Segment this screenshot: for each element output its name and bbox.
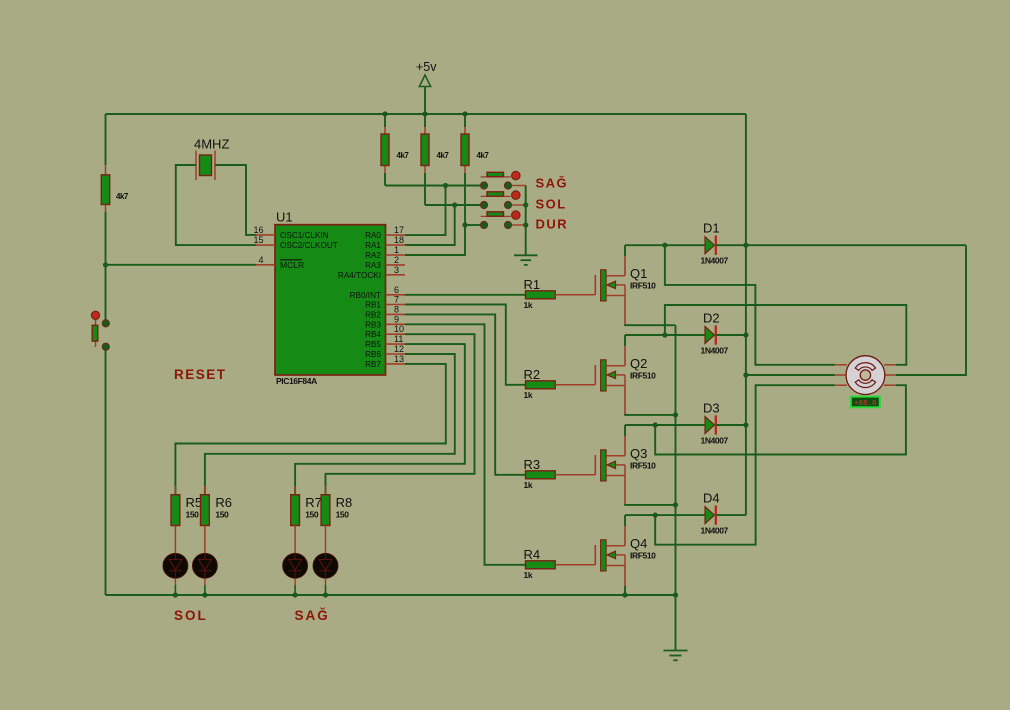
svg-text:U1: U1 (276, 210, 293, 225)
pin 7 RB1 stub (386, 304, 406, 306)
wire R2 to Q2 gate (555, 384, 595, 386)
wire SOL row horizontal (425, 204, 480, 206)
svg-text:RB7: RB7 (365, 360, 381, 369)
resistor R6 top lead (204, 486, 206, 495)
wire R3 to Q3 gate (555, 474, 595, 476)
node junction Q2 source / ground bus (673, 412, 678, 417)
wire D3 anode line (625, 424, 705, 426)
transistor Q1 channel plate (601, 270, 607, 301)
button SOL actuator (512, 191, 520, 199)
resistor R 4k7 left top lead (105, 165, 107, 175)
wire MCLR net horizontal (106, 264, 257, 266)
svg-text:IRF510: IRF510 (630, 281, 656, 291)
svg-text:4k7: 4k7 (116, 192, 129, 201)
svg-text:OSC1/CLKIN: OSC1/CLKIN (280, 231, 329, 240)
ground symbol main (664, 650, 688, 652)
pin 18 RA1 stub (386, 244, 406, 246)
svg-text:RB6: RB6 (365, 350, 381, 359)
svg-text:R2: R2 (524, 367, 541, 382)
button RESET bottom terminal (102, 343, 109, 350)
svg-text:11: 11 (394, 334, 403, 344)
wire motor right common to D1 cathode net (896, 245, 966, 375)
svg-text:1: 1 (394, 245, 399, 255)
svg-text:1k: 1k (524, 300, 533, 310)
wire Q1 source to ground bus (624, 296, 626, 326)
resistor pull-up 4k7 #3 top lead (464, 114, 466, 127)
diode D2 triangle (705, 327, 715, 344)
ground symbol buttons (514, 254, 538, 256)
wire D2 cathode to +5V vertical (716, 334, 746, 336)
svg-text:RA1: RA1 (365, 241, 381, 250)
resistor R3 body (526, 471, 556, 479)
wire RA0 pin17 to SAG row (405, 186, 446, 236)
svg-text:IRF510: IRF510 (630, 551, 656, 561)
node junction SOL common (523, 202, 528, 207)
svg-text:1k: 1k (524, 390, 533, 400)
resistor R8 top lead (325, 486, 327, 495)
svg-text:PIC16F84A: PIC16F84A (276, 376, 317, 386)
diode D1 cathode bar (715, 236, 717, 255)
button DUR actuator (512, 211, 520, 219)
svg-text:1N4007: 1N4007 (701, 256, 729, 266)
wire button DUR right stub (512, 224, 526, 226)
svg-text:Q4: Q4 (630, 536, 647, 551)
svg-text:R3: R3 (524, 457, 541, 472)
svg-text:D2: D2 (703, 311, 720, 326)
svg-text:150: 150 (186, 510, 200, 520)
node junction top rail / R pull-up 2 (422, 111, 427, 116)
resistor R5 bottom lead (174, 526, 176, 554)
diode D3 cathode bar (715, 415, 717, 434)
wire ground stem (675, 595, 677, 651)
LED D-led3 symbol (289, 560, 302, 571)
LED D-led1 symbol (169, 560, 182, 571)
button SOL cap (487, 192, 504, 196)
wire R1 to Q1 gate (555, 294, 595, 296)
wire buttons common vertical to ground (525, 186, 527, 256)
wire LED1 to bottom rail (174, 578, 176, 585)
pin 16 OSC1/CLKIN stub (256, 234, 275, 236)
wire D1 cathode to +5V and motor common (716, 244, 966, 246)
resistor R 4k7 left body (101, 175, 109, 205)
transistor Q2 gate line (594, 365, 596, 385)
button SAG right terminal (504, 182, 511, 189)
crystal left plate (195, 151, 197, 181)
resistor R2 body (526, 381, 556, 389)
wire bottom rail (106, 594, 676, 596)
resistor R 4k7 left bottom lead (105, 205, 107, 213)
svg-text:OSC2/CLKOUT: OSC2/CLKOUT (280, 241, 338, 250)
wire button SAG right stub (512, 185, 526, 187)
wire LED4 to bottom rail (325, 578, 327, 585)
svg-text:RB5: RB5 (365, 340, 381, 349)
svg-text:10: 10 (394, 324, 404, 334)
pin 15 OSC2/CLKOUT stub (256, 244, 275, 246)
svg-text:4MHZ: 4MHZ (194, 137, 229, 152)
node junction top rail / R pull-up 3 (462, 111, 467, 116)
transistor Q3 drain stub (606, 455, 625, 457)
svg-text:6: 6 (394, 285, 399, 295)
svg-text:SOL: SOL (174, 608, 208, 623)
power +5v arrow symbol (419, 75, 430, 87)
diode D3 triangle (705, 417, 715, 434)
node junction LED2 / bottom rail (202, 592, 207, 597)
node junction D3 anode tap (653, 422, 658, 427)
svg-text:8: 8 (394, 304, 399, 314)
transistor Q2 drain stub (606, 365, 625, 367)
node junction LED4 / bottom rail (323, 592, 328, 597)
wire RB2 pin8 to R3 (405, 314, 526, 474)
svg-text:RESET: RESET (174, 367, 227, 382)
wire winding1 Q1 drain to motor UL (665, 245, 835, 365)
svg-text:SOL: SOL (536, 197, 567, 212)
resistor pull-up 4k7 #1 body (381, 134, 389, 166)
node junction D3 cathode / +5V vertical (743, 422, 748, 427)
svg-text:13: 13 (394, 354, 404, 364)
resistor R1 body (526, 291, 556, 299)
crystal right plate (214, 151, 216, 181)
wire +5V top rail (106, 113, 746, 115)
resistor pull-up 4k7 #2 bottom lead (424, 166, 426, 174)
pin 4 MCLR stub (256, 264, 275, 266)
LED D-led2 symbol (199, 560, 212, 571)
resistor R6 bottom lead (204, 526, 206, 554)
wire R4 to Q4 gate (555, 564, 595, 566)
resistor pull-up 4k7 #1 bottom lead (384, 166, 386, 174)
wire D4 anode line (625, 514, 705, 516)
resistor R7 top lead (294, 486, 296, 495)
resistor R6 body (201, 495, 210, 526)
wire motor left common to +5V vertical (746, 374, 835, 376)
svg-text:7: 7 (394, 295, 399, 305)
svg-text:SAĞ: SAĞ (536, 176, 569, 191)
button DUR right terminal (504, 221, 511, 228)
node junction DUR/RA2 (462, 222, 467, 227)
resistor R8 body (321, 495, 330, 526)
svg-text:IRF510: IRF510 (630, 371, 656, 381)
svg-text:+5v: +5v (416, 60, 437, 74)
resistor R5 body (171, 495, 180, 526)
svg-text:12: 12 (394, 344, 404, 354)
transistor Q3 source stub (606, 475, 625, 477)
wire Q3 drain to D3 line (624, 436, 626, 456)
node junction D4 anode tap (653, 513, 658, 518)
svg-text:Q3: Q3 (630, 446, 647, 461)
wire RB4 pin10 to R8 (326, 334, 475, 495)
svg-text:1N4007: 1N4007 (701, 526, 729, 536)
svg-text:D3: D3 (703, 401, 720, 416)
wire reset button to bottom rail (105, 350, 107, 595)
svg-text:4k7: 4k7 (397, 151, 410, 160)
svg-text:RA2: RA2 (365, 251, 381, 260)
pin 6 RB0/INT stub (386, 294, 406, 296)
button SAG actuator (512, 171, 520, 179)
svg-text:SAĞ: SAĞ (295, 608, 330, 623)
svg-text:Q1: Q1 (630, 266, 647, 281)
svg-text:9: 9 (394, 314, 399, 324)
transistor Q2 source stub (606, 385, 625, 387)
wire Q3 source to ground bus (624, 476, 626, 505)
node junction SAG/RA0 (443, 183, 448, 188)
transistor Q4 body arrow (607, 551, 616, 558)
motor M1 shaft circle (860, 370, 870, 380)
svg-text:15: 15 (253, 235, 263, 245)
pin 12 RB6 stub (386, 353, 406, 355)
svg-text:D1: D1 (703, 221, 720, 236)
wire Q1 drain to D1 line (624, 256, 626, 276)
svg-text:150: 150 (215, 510, 229, 520)
svg-text:1N4007: 1N4007 (701, 346, 729, 356)
button DUR left terminal (480, 221, 487, 228)
wire DUR row horizontal (465, 224, 480, 226)
node junction LED3 / bottom rail (293, 592, 298, 597)
pin 17 RA0 stub (386, 234, 406, 236)
wire Q4 drain to D4 line (624, 526, 626, 546)
button RESET actuator (91, 311, 99, 319)
wire RB3 pin9 to R4 (405, 324, 526, 565)
wire SAG row horizontal (385, 185, 480, 187)
pin 13 RB7 stub (386, 363, 406, 365)
wire D3 cathode to +5V vertical (716, 424, 746, 426)
transistor Q1 drain stub (606, 275, 625, 277)
wire LED3 to bottom rail (294, 578, 296, 585)
svg-text:4: 4 (258, 255, 263, 265)
node junction D1 cathode / +5V vertical (743, 243, 748, 248)
transistor Q3 gate line (594, 455, 596, 475)
button RESET cap (92, 325, 98, 341)
svg-text:R7: R7 (305, 495, 322, 510)
chip U1 PIC16F84A body (275, 225, 386, 375)
node junction D2 anode tap (662, 332, 667, 337)
wire RB5 pin11 to R7 (295, 344, 465, 495)
button DUR cap (487, 212, 504, 216)
wire ground bus vertical (675, 325, 677, 595)
diode D2 cathode bar (715, 325, 717, 344)
button SAG cap (487, 172, 504, 176)
LED D-led4 symbol (319, 560, 332, 571)
node junction D1 anode tap (662, 243, 667, 248)
LED D-led2 body (193, 553, 218, 578)
motor M1 upper brush arc (855, 363, 875, 371)
diode D1 triangle (705, 237, 715, 254)
svg-text:RB1: RB1 (365, 301, 381, 310)
LED D-led3 body (283, 553, 308, 578)
wire winding3 Q3 drain to motor LR (655, 385, 906, 454)
wire crystal left to OSC2 (176, 165, 256, 245)
button SAG left terminal (480, 182, 487, 189)
transistor Q2 channel plate (601, 360, 607, 391)
wire RA2 pin1 to DUR row (405, 225, 465, 255)
transistor Q3 channel plate (601, 450, 607, 481)
resistor pull-up 4k7 #2 top lead (424, 114, 426, 127)
svg-text:RB2: RB2 (365, 310, 381, 319)
LED D-led1 body (163, 553, 188, 578)
pin 3 RA4/TOCKI stub (386, 274, 406, 276)
node junction Q3 source / ground bus (673, 502, 678, 507)
svg-text:1k: 1k (524, 480, 533, 490)
svg-text:R4: R4 (524, 547, 541, 562)
transistor Q1 body arrow (607, 281, 616, 288)
resistor pull-up 4k7 #1 top lead (384, 114, 386, 127)
resistor pull-up 4k7 #3 body (461, 134, 469, 166)
transistor Q3 body arrow (607, 461, 616, 468)
node junction motor common / +5V vertical (743, 372, 748, 377)
svg-text:17: 17 (394, 225, 404, 235)
wire Q2 drain to D2 line (624, 346, 626, 366)
pin 1 RA2 stub (386, 254, 406, 256)
button RESET top terminal (102, 320, 109, 327)
svg-text:1k: 1k (524, 570, 533, 580)
svg-text:DUR: DUR (536, 217, 569, 232)
svg-text:+88.8: +88.8 (854, 400, 877, 408)
wire left vertical upper (top rail to R 4k7) (105, 114, 107, 165)
node junction MCLR net (103, 262, 108, 267)
svg-text:MCLR: MCLR (280, 260, 304, 270)
svg-text:18: 18 (394, 235, 404, 245)
wire +5V vertical right (745, 114, 747, 515)
resistor R5 top lead (174, 486, 176, 495)
wire RB1 pin7 to R2 (405, 305, 526, 385)
svg-text:RA0: RA0 (365, 231, 381, 240)
svg-text:RB3: RB3 (365, 320, 381, 329)
svg-text:R5: R5 (186, 495, 203, 510)
resistor R4 body (526, 561, 556, 569)
svg-text:1N4007: 1N4007 (701, 436, 729, 446)
transistor Q1 gate line (594, 275, 596, 295)
resistor R8 bottom lead (325, 526, 327, 554)
transistor Q4 channel plate (601, 540, 607, 571)
wire Q4 source to bottom rail (624, 566, 626, 587)
wire RB7 pin13 to R5 (175, 364, 445, 495)
diode D4 cathode bar (715, 505, 717, 524)
wire LED2 to bottom rail (204, 578, 206, 585)
svg-text:D4: D4 (703, 491, 720, 506)
wire winding2 Q2 drain to motor UR (665, 305, 906, 365)
svg-text:R6: R6 (215, 495, 232, 510)
pin 9 RB3 stub (386, 323, 406, 325)
svg-text:150: 150 (336, 510, 350, 520)
wire Q2 source to ground bus (624, 386, 626, 415)
motor M1 rpm display (851, 397, 880, 408)
resistor R7 bottom lead (294, 526, 296, 554)
wire MCLR vertical to reset button (105, 265, 107, 320)
wire D2 anode line (625, 334, 705, 336)
transistor Q4 drain stub (606, 545, 625, 547)
svg-text:3: 3 (394, 265, 399, 275)
resistor pull-up 4k7 #2 body (421, 134, 429, 166)
motor M1 pin stubs (835, 364, 847, 366)
svg-text:4k7: 4k7 (437, 151, 450, 160)
wire crystal right to OSC1 (215, 165, 256, 235)
button SOL right terminal (504, 201, 511, 208)
svg-text:150: 150 (305, 510, 319, 520)
node junction top rail / R pull-up 1 (382, 111, 387, 116)
svg-text:Q2: Q2 (630, 356, 647, 371)
button DUR cap link (481, 215, 511, 217)
transistor Q1 source stub (606, 295, 625, 297)
node junction SOL/RA1 (452, 202, 457, 207)
LED D-led4 body (313, 553, 338, 578)
transistor Q4 gate line (594, 545, 596, 565)
button RESET actuator stem (95, 318, 97, 347)
transistor Q2 body arrow (607, 371, 616, 378)
svg-text:2: 2 (394, 255, 399, 265)
wire RB0 pin6 to R1 (405, 294, 526, 296)
resistor pull-up 4k7 #3 bottom lead (464, 166, 466, 174)
svg-text:RB4: RB4 (365, 330, 381, 339)
pin 11 RB5 stub (386, 343, 406, 345)
wire RB6 pin12 to R6 (205, 354, 455, 495)
svg-text:R1: R1 (524, 277, 541, 292)
transistor Q4 source stub (606, 565, 625, 567)
motor M1 body (846, 356, 885, 395)
node junction ground bus / bottom rail (673, 592, 678, 597)
wire winding4 Q4 drain to motor LL (655, 385, 835, 545)
crystal body (200, 155, 212, 176)
svg-text:RA4/TOCKI: RA4/TOCKI (338, 271, 381, 280)
svg-text:16: 16 (253, 225, 263, 235)
node junction D2 cathode / +5V vertical (743, 332, 748, 337)
pin 8 RB2 stub (386, 313, 406, 315)
button SOL cap link (481, 195, 511, 197)
node junction Q4 source / bottom rail (622, 592, 627, 597)
node junction DUR common (523, 222, 528, 227)
diode D4 triangle (705, 507, 715, 524)
resistor R7 body (291, 495, 300, 526)
node junction LED1 / bottom rail (173, 592, 178, 597)
motor M1 lower brush arc (855, 380, 875, 388)
wire button SOL right stub (512, 204, 526, 206)
svg-text:4k7: 4k7 (477, 151, 490, 160)
pin 10 RB4 stub (386, 333, 406, 335)
svg-text:RB0/INT: RB0/INT (350, 291, 381, 300)
button SOL left terminal (480, 201, 487, 208)
svg-text:IRF510: IRF510 (630, 461, 656, 471)
svg-text:R8: R8 (336, 495, 353, 510)
wire RA1 pin18 to SOL row (405, 205, 455, 245)
wire D1 anode line (625, 244, 705, 246)
svg-text:RA3: RA3 (365, 261, 381, 270)
wire D4 cathode to +5V vertical (716, 514, 746, 516)
pin 2 RA3 stub (386, 264, 406, 266)
button SAG cap link (481, 176, 511, 178)
